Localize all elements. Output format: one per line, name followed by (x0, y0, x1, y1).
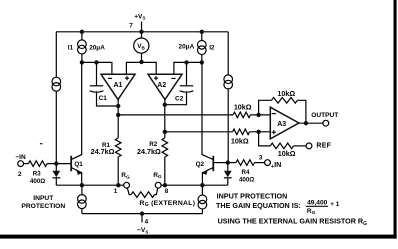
current source input-bias (right mirror) (224, 75, 233, 84)
svg-text:INPUT PROTECTION: INPUT PROTECTION (217, 191, 288, 200)
svg-text:OUTPUT: OUTPUT (311, 112, 338, 119)
current source tail left (81, 185, 83, 213)
wire A3 output (299, 122, 323, 124)
diode D1 (input protection) (55, 164, 57, 171)
svg-text:24.7kΩ: 24.7kΩ (91, 147, 115, 156)
node VB lower junction (139, 60, 143, 64)
resistor 10k A3 feedback (259, 100, 272, 115)
A3 minus marker (272, 113, 276, 115)
svg-text:10kΩ: 10kΩ (277, 89, 295, 98)
A2 minus marker (171, 77, 175, 79)
A1 minus marker (108, 77, 112, 79)
op-amp A1 (101, 74, 135, 99)
wire emitter bus right (161, 184, 228, 186)
terminal OUTPUT (323, 120, 329, 126)
node Q2 base (226, 160, 230, 164)
current source tail right (201, 185, 203, 213)
svg-text:+ 1: + 1 (330, 201, 340, 208)
svg-text:−IN: −IN (15, 154, 26, 161)
svg-text:I2: I2 (209, 44, 215, 51)
resistor R3 400ohm (24, 163, 29, 165)
svg-text:Q2: Q2 (196, 161, 205, 168)
resistor R4 400ohm (255, 162, 265, 164)
svg-text:10kΩ: 10kΩ (278, 149, 296, 158)
node junction +Vs on rail (139, 30, 143, 34)
svg-text:THE GAIN EQUATION IS:: THE GAIN EQUATION IS: (216, 201, 301, 210)
svg-text:7: 7 (129, 23, 133, 30)
node N1: I1 / Q1 collector / A1 inv input / C1 (80, 60, 84, 64)
svg-text:I1: I1 (68, 44, 74, 51)
wire left rail down to Q1 base node (55, 32, 57, 164)
svg-text:INPUT: INPUT (33, 195, 54, 202)
current source I2 20uA (201, 32, 203, 63)
svg-text:24.7kΩ: 24.7kΩ (137, 147, 161, 156)
wire A1 node to A3 inverting input, 10k resistor (118, 114, 233, 116)
svg-text:RG (EXTERNAL): RG (EXTERNAL) (140, 200, 196, 208)
svg-text:REF: REF (316, 143, 331, 150)
diode D2 (input protection) (227, 163, 229, 171)
node Q1 base (54, 161, 58, 165)
capacitor C2 (186, 62, 188, 85)
voltage source VB (141, 32, 143, 63)
terminal RG pin 8 (155, 182, 161, 188)
wire VB to A1+ and A2+ inputs (126, 62, 156, 74)
svg-text:R3: R3 (33, 171, 41, 178)
wire right branch down to Q2 base node (227, 32, 229, 163)
wire top +Vs rail (56, 31, 228, 33)
svg-text:8: 8 (165, 188, 169, 195)
A2 plus marker (154, 76, 158, 80)
op-amp A3 (270, 107, 299, 139)
capacitor C1 (96, 62, 98, 85)
wire N2 to A2 inverting input (174, 62, 202, 74)
svg-text:4: 4 (145, 218, 149, 225)
svg-text:3: 3 (259, 154, 263, 161)
svg-text:10kΩ: 10kΩ (234, 102, 252, 111)
current source I1 20uA (81, 32, 83, 63)
svg-text:20μA: 20μA (89, 44, 105, 51)
svg-text:Q1: Q1 (74, 161, 83, 168)
svg-text:R4: R4 (242, 169, 250, 176)
svg-text:400Ω: 400Ω (239, 176, 254, 183)
svg-text:C1: C1 (99, 95, 108, 102)
terminal RG pin 1 (124, 182, 130, 188)
stray scan mark (40, 143, 43, 145)
current source input-bias (left mirror) (52, 77, 61, 86)
wire emitter bus left (56, 184, 123, 186)
terminal REF (306, 143, 312, 149)
wire A2 output vertical + resistor R2 24.7k (164, 100, 166, 139)
node N2: I2 / Q2 collector / A2 inv input / C2 (200, 60, 204, 64)
op-amp A2 (148, 74, 182, 99)
svg-text:10kΩ: 10kΩ (231, 136, 249, 145)
wire A2 node to A3 non-inverting input, 10k resistor (165, 131, 233, 133)
-Vs pin 4 stub (141, 214, 143, 223)
svg-text:PROTECTION: PROTECTION (21, 203, 65, 210)
scan border bottom (0, 235, 397, 239)
svg-text:C2: C2 (175, 96, 184, 103)
svg-text:USING THE EXTERNAL GAIN RESIST: USING THE EXTERNAL GAIN RESISTOR RG (218, 217, 368, 227)
svg-text:A2: A2 (157, 82, 166, 89)
scan border right (394, 0, 397, 239)
wire -Vs rail (82, 213, 202, 215)
svg-text:A1: A1 (114, 82, 123, 89)
svg-text:2: 2 (18, 171, 22, 178)
A3 plus marker (272, 130, 276, 134)
svg-text:A3: A3 (277, 121, 286, 128)
svg-text:1: 1 (114, 188, 118, 195)
svg-text:49,400: 49,400 (307, 200, 328, 207)
svg-text:400Ω: 400Ω (30, 178, 45, 185)
transistor Q1 (70, 156, 72, 171)
svg-text:20μA: 20μA (179, 43, 195, 50)
resistor RG external (127, 188, 131, 195)
A1 plus marker (125, 76, 129, 80)
wire N1 to A1 inverting input (82, 62, 112, 74)
resistor 10k to REF (259, 132, 271, 146)
wire A1 output vertical + resistor R1 24.7k (117, 100, 119, 139)
+Vs pin stub (141, 22, 143, 32)
transistor Q2 (213, 162, 227, 164)
